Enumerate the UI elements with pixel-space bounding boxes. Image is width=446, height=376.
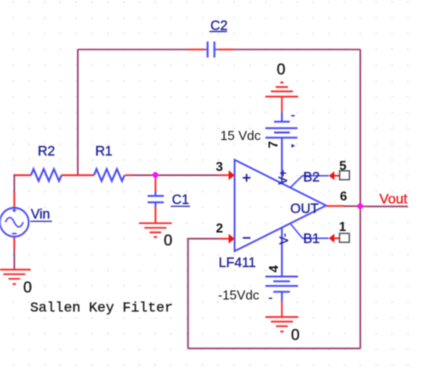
pin 3 arrow [219, 174, 229, 176]
svg-text:OUT: OUT [290, 201, 319, 216]
svg-text:7: 7 [265, 141, 280, 148]
svg-text:B1: B1 [303, 231, 320, 246]
svg-text:4: 4 [266, 265, 281, 273]
junction node A (R1/C1/pin3) [153, 172, 159, 178]
wire: right vertical [359, 50, 361, 349]
ground 0 (bottom) [266, 301, 299, 332]
capacitor C1 [148, 177, 164, 223]
svg-text:0: 0 [291, 327, 300, 344]
op-amp U1 LF411 [235, 160, 326, 251]
svg-text:V-: V- [277, 233, 291, 244]
battery V2 -15Vdc [265, 227, 298, 301]
svg-text:B2: B2 [303, 169, 320, 184]
wire: feedback left vertical [77, 50, 79, 176]
svg-text:2: 2 [216, 220, 223, 235]
svg-text:6: 6 [340, 189, 347, 204]
pin 6 output lead [326, 205, 344, 207]
svg-text:C2: C2 [210, 18, 227, 33]
ground 0 (Vin) [0, 270, 31, 284]
svg-text:-15Vdc: -15Vdc [218, 287, 260, 302]
ground 0 (top, flipped) [265, 83, 298, 113]
wire: main input rail [14, 175, 219, 195]
wire: Vin bottom [13, 248, 15, 270]
svg-text:R1: R1 [95, 144, 112, 159]
ground 0 (C1) [139, 223, 172, 237]
svg-text:Sallen Key Filter: Sallen Key Filter [30, 300, 173, 316]
svg-text:3: 3 [216, 159, 223, 174]
svg-text:0: 0 [277, 61, 286, 78]
svg-text:0: 0 [164, 233, 173, 250]
battery V1 15Vdc [265, 113, 297, 185]
terminal 1 arrow [329, 234, 335, 243]
wire: Vout stub [360, 205, 408, 207]
svg-text:0: 0 [23, 279, 32, 296]
svg-text:R2: R2 [38, 144, 55, 159]
wire: inverting input branch [188, 239, 219, 349]
terminal 5 arrow [329, 171, 335, 180]
pin 2 arrow [219, 238, 229, 240]
terminal 5 square [340, 171, 350, 180]
terminal 1 square [340, 233, 350, 242]
svg-text:LF411: LF411 [219, 255, 256, 270]
svg-text:V+: V+ [276, 170, 290, 185]
resistor R2 [14, 169, 94, 181]
pin B2 [290, 176, 329, 188]
svg-text:Vout: Vout [379, 191, 407, 207]
svg-text:15 Vdc: 15 Vdc [220, 128, 261, 143]
pin B1 [290, 223, 329, 238]
junction node out [357, 203, 363, 209]
wire: feedback top horizontal [78, 49, 360, 51]
wire: bottom horizontal [188, 347, 360, 349]
source Vin [0, 193, 29, 249]
svg-text:5: 5 [339, 158, 346, 173]
svg-text:C1: C1 [172, 192, 189, 207]
resistor R1 [94, 169, 132, 181]
svg-text:1: 1 [339, 219, 346, 234]
capacitor C2 [188, 42, 234, 58]
svg-text:Vin: Vin [31, 206, 50, 221]
wire: output to junction [343, 205, 360, 207]
